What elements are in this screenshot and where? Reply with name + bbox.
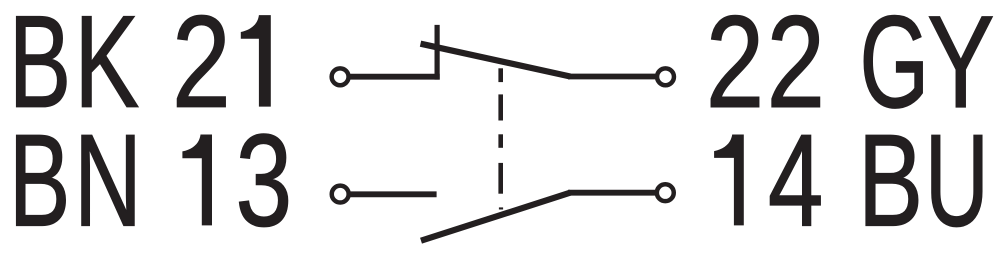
label 14 BU: digit 1 xyxy=(714,135,744,226)
label 22 GY: digit 2 (second) xyxy=(767,0,825,136)
label 22 GY: digit 2 (first) xyxy=(706,0,764,136)
NC contact arm (21-22) xyxy=(421,44,571,77)
terminal pin 14 (bottom right circle) xyxy=(657,184,674,201)
svg-text:4: 4 xyxy=(768,107,823,253)
svg-text:B: B xyxy=(9,107,71,254)
mechanical link dash 4 xyxy=(498,163,503,194)
NO contact arm (13-14) xyxy=(421,193,571,241)
label 14 BU: letter B xyxy=(858,108,923,254)
svg-text:3: 3 xyxy=(236,107,293,253)
svg-text:2: 2 xyxy=(172,0,231,135)
mechanical link dash 1 xyxy=(498,68,503,82)
wire contact to pin 14 xyxy=(568,190,658,196)
label BK 21: letter B xyxy=(9,0,71,135)
label BN 13: digit 3 xyxy=(236,107,293,253)
NC contact stop bar xyxy=(435,25,440,80)
svg-text:2: 2 xyxy=(706,0,764,136)
mechanical link dash 5 xyxy=(499,207,503,209)
svg-text:B: B xyxy=(858,108,923,254)
label 22 GY: letter G xyxy=(860,0,930,135)
wire pin13 to contact xyxy=(349,191,437,197)
wire contact to pin 22 xyxy=(568,74,657,80)
label 14 BU: digit 4 xyxy=(768,107,823,253)
label BK 21: digit 2 xyxy=(172,0,231,135)
label BK 21: digit 1 xyxy=(241,15,271,107)
label 22 GY: letter Y xyxy=(927,0,994,135)
mechanical link dash 3 xyxy=(498,134,503,148)
wire pin21 to contact xyxy=(349,74,440,80)
label BN 13: letter N xyxy=(74,108,142,254)
svg-text:U: U xyxy=(925,107,989,253)
label BK 21: letter K xyxy=(74,0,139,135)
terminal pin 13 (bottom left circle) xyxy=(332,186,349,203)
mechanical link dash 2 xyxy=(498,94,503,120)
terminal pin 22 (top right circle) xyxy=(657,68,674,85)
label 14 BU: letter U xyxy=(925,107,989,253)
label BN 13: digit 1 xyxy=(182,135,212,226)
svg-text:N: N xyxy=(74,108,142,254)
label BN 13: letter B xyxy=(9,107,71,254)
terminal pin 21 (top left circle) xyxy=(332,68,349,85)
